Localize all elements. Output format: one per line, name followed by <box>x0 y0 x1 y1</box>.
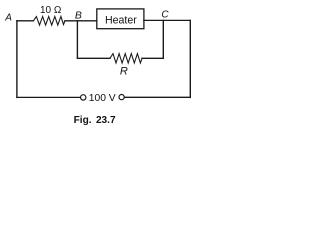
svg-text:100 V: 100 V <box>89 93 116 104</box>
svg-text:10 Ω: 10 Ω <box>40 5 62 16</box>
svg-text:Heater: Heater <box>105 14 137 26</box>
svg-text:B: B <box>75 10 82 22</box>
svg-text:C: C <box>161 10 169 21</box>
svg-text:A: A <box>4 13 12 24</box>
svg-text:Fig. 23.7: Fig. 23.7 <box>74 115 116 126</box>
svg-text:R: R <box>120 66 128 78</box>
